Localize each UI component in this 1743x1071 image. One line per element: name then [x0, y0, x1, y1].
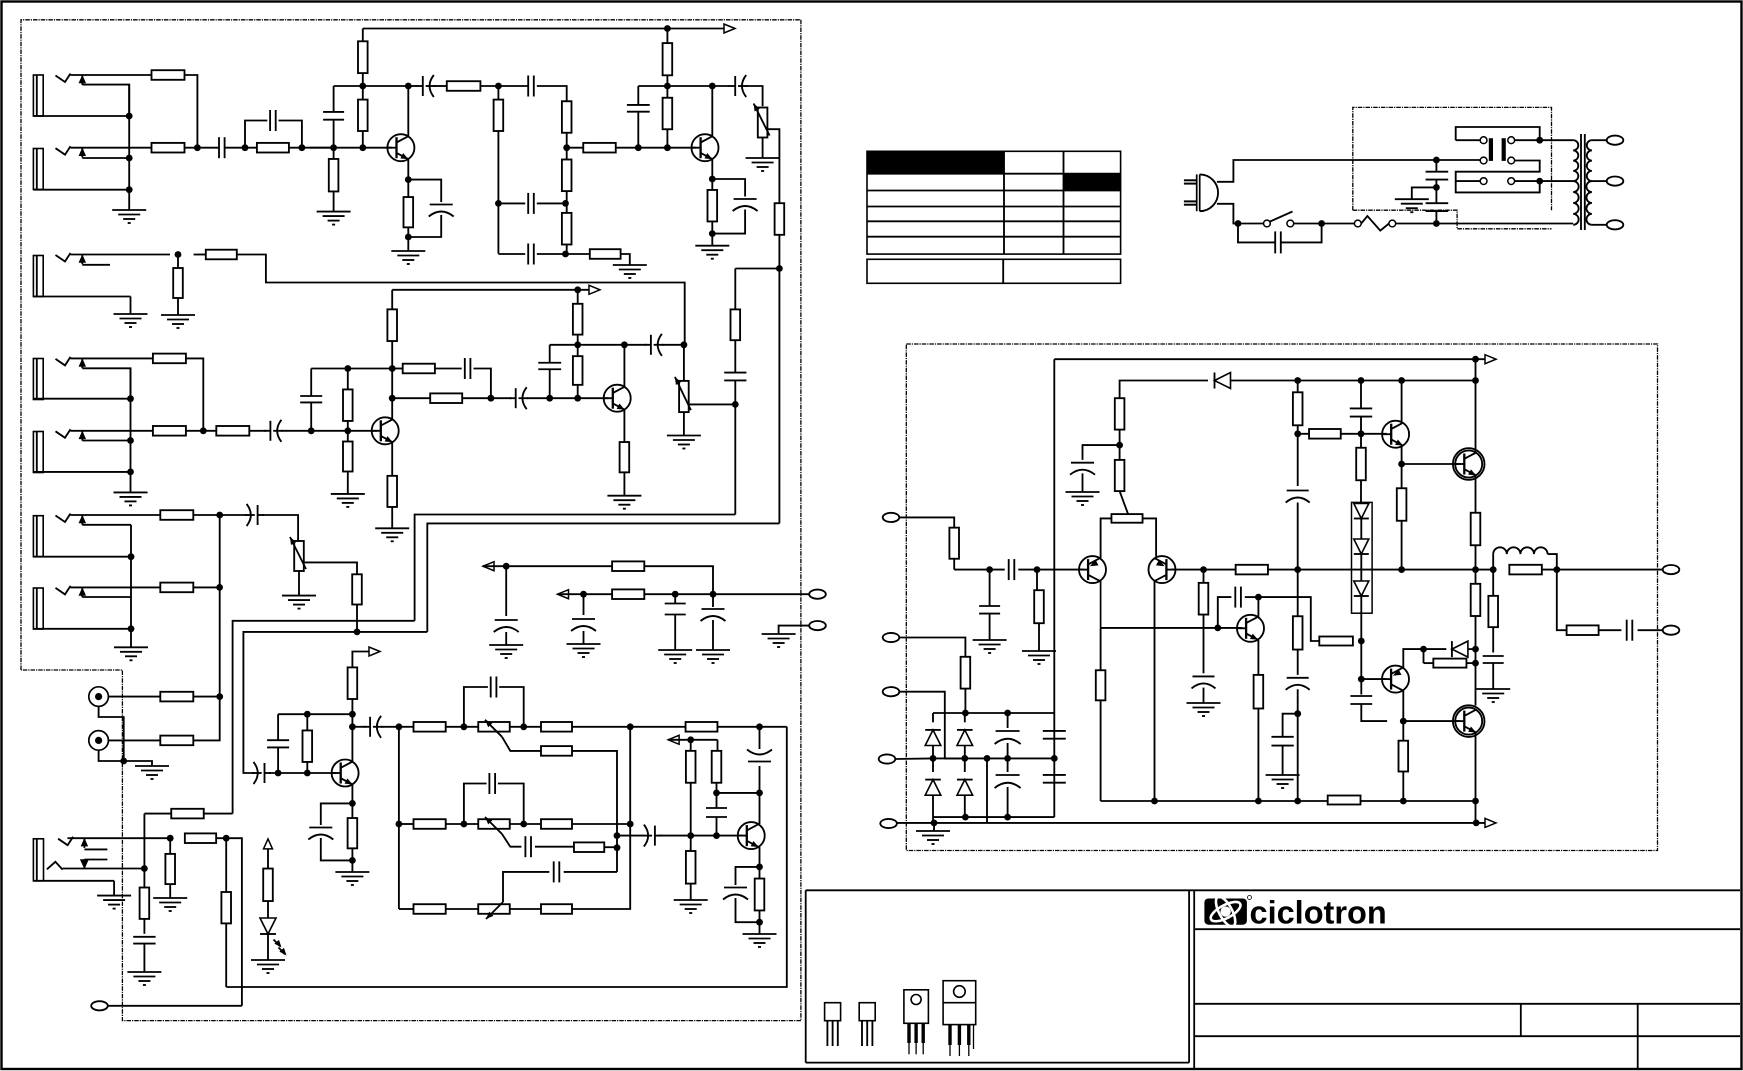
title block left edge [1193, 890, 1195, 1068]
ground jacks A [112, 210, 146, 223]
wire C1 to R3 [225, 144, 257, 151]
transistor Q9 [1149, 556, 1177, 583]
ring node [141, 814, 148, 888]
Q10 emitter wire [1398, 446, 1405, 489]
capacitor C8 bypass [712, 179, 757, 234]
bridge diode D4 [925, 713, 941, 758]
Q8 emitter wire [1100, 557, 1102, 559]
bias diode chain box [1352, 502, 1373, 613]
terminal speaker minus [1663, 626, 1680, 635]
transformer T1 secondary winding [1586, 140, 1591, 225]
bridge diode D5 [957, 713, 973, 758]
wire fb A lower2 [537, 251, 569, 258]
Q2 base line [567, 147, 584, 149]
jack J1 tip contact [56, 74, 71, 83]
capacitor across switch [1238, 224, 1322, 254]
node row A top [334, 83, 412, 90]
resistor R20 [153, 426, 186, 436]
resistor R8 [447, 81, 481, 91]
resistor R10 [663, 29, 673, 87]
resistor R6 [329, 148, 339, 212]
transistor Q10 [1382, 421, 1410, 448]
power switch S1 [1235, 212, 1325, 227]
transistor Q12 [1237, 615, 1265, 642]
selector contact group upper [1456, 127, 1540, 144]
resistor R61a [612, 589, 644, 599]
wire to speaker [1509, 566, 1662, 573]
wire R61p out [1268, 569, 1288, 571]
EQ row1 to C30 [718, 723, 787, 730]
transistor Q13 [1382, 666, 1410, 693]
capacitor C23 bypass [308, 803, 352, 860]
resistor R38q [348, 667, 358, 699]
amp rail A arrow [1485, 355, 1496, 364]
wire plug neutral [1217, 204, 1238, 224]
potentiometer P2 volume B [675, 377, 691, 412]
EQ wiper2 resistor R53 [574, 842, 604, 852]
wire R3 out [289, 144, 334, 151]
zobel network [1557, 570, 1622, 635]
Q13 base wire [1361, 678, 1386, 680]
terminal AC in C [879, 754, 896, 763]
wire R19 to node [186, 358, 203, 430]
wire C5 to R8 [434, 85, 447, 87]
wire return bus B [233, 621, 415, 814]
filter cap C47 [1043, 731, 1066, 739]
RCA ground stubs [99, 706, 152, 766]
resistor R29 [392, 364, 435, 374]
amp input wire2 [954, 566, 1005, 573]
resistor R68 [1471, 513, 1481, 570]
Q7 emitter node2 [756, 919, 763, 926]
resistor R15 [562, 213, 572, 254]
ground Q7 [743, 934, 777, 947]
ground Q1 [391, 251, 425, 264]
resistor R19v [173, 255, 183, 316]
P2 wiper wire [689, 403, 736, 405]
row A wire [483, 563, 612, 570]
V+ rail A arrow [724, 24, 735, 33]
ground C43 [1476, 689, 1510, 702]
EQ row2 resistor R52 [541, 819, 572, 829]
Q4 emitter wire [391, 442, 393, 476]
EQ wiper2 wire [502, 834, 521, 847]
wire R2 to node [185, 147, 198, 149]
terminal speaker plus [1663, 565, 1680, 574]
transformer T1 core [1581, 134, 1585, 230]
EQ wiper3 join [564, 871, 617, 873]
title block divider A [1520, 1004, 1522, 1036]
title block row line 1 [1194, 928, 1740, 930]
resistor R28 [343, 431, 353, 494]
wire C18 out [662, 341, 687, 348]
jack J2 body [33, 149, 129, 190]
wire send bus A [427, 523, 779, 632]
terminal AC in B [883, 687, 900, 696]
trim pot P7 [1111, 514, 1142, 523]
resistor R12 [583, 143, 616, 153]
vertical link rail [1475, 801, 1477, 823]
capacitor C20 [252, 762, 271, 784]
V+ rail A [363, 25, 724, 32]
resistor R33 [731, 269, 741, 373]
ground Q6 [335, 872, 369, 885]
resistor R2 [152, 143, 185, 153]
resistor R5 [358, 86, 368, 148]
bias chain lower [1358, 613, 1365, 694]
wire RCA1 [108, 696, 160, 698]
ground shunt B [567, 644, 601, 657]
wire selector to primary top [1515, 137, 1574, 144]
svg-text:ciclotron: ciclotron [1250, 895, 1387, 931]
capacitor C32 [642, 825, 661, 847]
wire R16 to ground [621, 254, 630, 265]
ground R6 [317, 212, 351, 225]
Q6 collector wire [349, 714, 356, 761]
wire R36c out [193, 693, 223, 700]
Q6 emitter wire [349, 785, 356, 807]
terminal amp gnd ref [880, 819, 897, 828]
EQ row1 node1 [446, 723, 479, 730]
wire J8 tip [68, 835, 174, 842]
V+ arrow Q6 [351, 667, 353, 714]
resistor R59 [755, 879, 765, 934]
jack J1 body [33, 75, 129, 116]
Q1 emitter node2 [405, 234, 412, 241]
jack J5 tip contact [56, 429, 71, 438]
resistor R32 [620, 442, 630, 496]
resistor R4 [358, 29, 368, 87]
capacitor C52 [1286, 678, 1310, 801]
row B wire2 [644, 591, 809, 598]
Q14 emitter wire [1475, 733, 1477, 801]
terminal secondary C [1607, 220, 1624, 229]
capacitor C36 [1218, 587, 1259, 628]
capacitor C31 [706, 793, 727, 836]
resistor R26 [430, 393, 462, 403]
transistor Q14 [1453, 705, 1485, 737]
P2 ground [667, 412, 701, 448]
selector contact group lower [1456, 157, 1540, 192]
title block row line 2 [1194, 1003, 1740, 1005]
ground shunt C [658, 650, 692, 663]
terminal preamp gnd [779, 621, 826, 634]
resistor R22 [206, 250, 237, 260]
wire J7 tip to R [71, 586, 161, 588]
resistor R79 [961, 657, 971, 713]
PSU bottom bus [933, 814, 1054, 821]
Q2 collector wire [711, 86, 713, 136]
V+ rail B arrow [589, 285, 600, 294]
EQ row2 resistor R40 [399, 819, 446, 829]
ground shunt D [696, 650, 730, 663]
capacitor C7 [627, 86, 650, 148]
terminal preamp out [809, 590, 826, 599]
ground terminal [762, 634, 796, 647]
resistor R60a [612, 561, 644, 571]
inductor L1 [1493, 547, 1557, 569]
node R57 bottom [713, 790, 759, 797]
wire J4 tip to R19 [71, 357, 153, 359]
wire C32 to Q7 [659, 832, 743, 839]
capacitor C14 [300, 369, 322, 431]
LED D8 [260, 918, 287, 960]
EQ row1 resistor R51 [686, 722, 718, 732]
wire C15 out [474, 369, 491, 399]
EQ row1 out [572, 723, 686, 730]
resistor R69 [1509, 565, 1542, 575]
amp rail B wire [1231, 377, 1479, 384]
capacitor C49 [1627, 620, 1633, 641]
ground Q4 [375, 528, 409, 541]
capacitor C38 [1286, 434, 1310, 570]
capacitor C33q bypass [723, 867, 760, 922]
V+ arrow EQ [668, 735, 717, 744]
filter cap C46 [995, 758, 1021, 817]
wire plug live [1217, 160, 1480, 182]
wire fb A upper [498, 202, 525, 204]
EQ row3 resistor R55 [510, 904, 572, 914]
ground bus jacks C [128, 525, 135, 648]
capacitor C18 coupling [624, 334, 663, 356]
Q13 emitter wire [1403, 646, 1427, 668]
resistor R30 [573, 345, 583, 398]
Q12 emitter wire [1257, 640, 1259, 675]
node B1 [563, 144, 570, 151]
Q6 bias row [278, 711, 356, 718]
amp bottom rail2 [1101, 798, 1479, 805]
V+ stub Q6 [352, 647, 380, 667]
capacitor C11 [245, 504, 264, 526]
node fb A [495, 200, 502, 207]
ground R82b [1022, 651, 1056, 664]
P6 wiper wire [304, 562, 357, 574]
ground R28 [331, 494, 365, 507]
EQ input bus [396, 723, 403, 909]
transistor Q11 [1453, 448, 1485, 480]
EQ row1 cap C24 [464, 677, 524, 727]
Q7 base line [617, 835, 643, 837]
wire send bus B [415, 515, 736, 621]
capacitor C6 coupling [528, 76, 534, 97]
filter cap C48 [1043, 775, 1066, 783]
resistor R62 [1115, 460, 1125, 491]
wire R29 to C15 [435, 368, 462, 370]
resistor R60p [1199, 570, 1209, 674]
EQ wiper2 cap C28 [525, 836, 531, 857]
table highlighted cell [1064, 174, 1121, 191]
wire C20 to Q6 [269, 770, 337, 777]
stage B2 line [389, 395, 494, 402]
resistor R16 [590, 249, 621, 259]
amp input wire3 [1018, 566, 1083, 573]
ground Q2 [695, 246, 729, 259]
capacitor C6b [528, 244, 534, 265]
wire R20 to node [186, 427, 217, 434]
resistor R74 [1471, 570, 1481, 706]
wire Q12 to R72 [1258, 597, 1319, 641]
ground jacks C [114, 647, 148, 660]
table grid [867, 151, 1121, 254]
resistor R82b [1034, 570, 1044, 651]
bridge diode D7 [957, 758, 973, 817]
wire RCA2 [108, 739, 160, 741]
resistor R13 [562, 101, 572, 147]
wire fb A lower [498, 253, 525, 255]
title block top line [806, 889, 1740, 891]
Q7 collector wire [756, 790, 763, 825]
jack J5 body [33, 432, 130, 473]
Q4 collector wire [391, 369, 393, 420]
power amp block dashed boundary [906, 344, 1657, 851]
filter midpoint ground [1395, 187, 1437, 212]
ground C53 [1266, 775, 1300, 788]
wire mix line [243, 629, 427, 774]
resistor R37q [348, 803, 358, 872]
title block divider B [1637, 1004, 1639, 1069]
capacitor C16 coupling [491, 387, 528, 409]
resistor R21 [216, 426, 249, 436]
wire fb bottom [567, 253, 590, 255]
resistor R9 [494, 86, 504, 254]
resistor R64 [1293, 381, 1303, 434]
EQ row3 node1 [446, 908, 479, 910]
jack J8 ring switch [80, 859, 108, 869]
resistor R25 [387, 290, 397, 369]
resistor R45 [165, 838, 175, 898]
jack J7 tip contact [56, 586, 71, 595]
wire R21 to C10 [249, 430, 266, 432]
transistor Q8 [1079, 556, 1107, 583]
jack J7 body [33, 588, 131, 629]
node row B3 top [550, 341, 628, 348]
wire C16 out [527, 395, 609, 402]
resistor R76 [1328, 796, 1361, 805]
node P2 wiper bus [732, 401, 739, 515]
jack J4 body [33, 359, 130, 400]
wire secondary tap B [1592, 180, 1607, 182]
package TO-220 [943, 981, 976, 1056]
jack J8 tip contact [58, 837, 73, 846]
resistor R72 [1319, 637, 1353, 646]
EQ row2 node2 [510, 821, 541, 828]
resistor R56 [686, 740, 696, 836]
capacitor C3 [323, 86, 344, 148]
ground bus jacks B [127, 368, 134, 492]
EQ row1 resistor R50 [541, 722, 572, 732]
jack J6 switch contact [79, 515, 131, 525]
package TO-92 A [825, 1003, 841, 1046]
capacitor C4 bypass [408, 180, 453, 237]
resistor R18 [775, 203, 785, 523]
capacitor C22 coupling [352, 716, 382, 738]
Q14 base wire [1403, 720, 1460, 722]
ground jacks B [114, 492, 148, 505]
resistor R73 [1424, 649, 1476, 668]
wire J1 tip to R1 [71, 74, 152, 76]
resistor R75 [1488, 570, 1498, 653]
J3 ground bus [114, 297, 148, 328]
EQ wiper2 wire2 [535, 846, 574, 848]
wire selector tap [1515, 178, 1574, 185]
capacitor C17 [538, 345, 561, 398]
wire R34c out [193, 514, 219, 516]
capacitor C2 feedback [245, 110, 302, 148]
AC A wire [899, 638, 965, 657]
ground shunt amp [973, 640, 1007, 653]
bias diode D2a [1354, 502, 1369, 539]
feedback rail [888, 822, 890, 824]
ground R19v [161, 315, 195, 328]
ground bus jacks A [126, 85, 133, 210]
amp module left rail [1053, 359, 1055, 817]
voltage selector dashed box [1353, 107, 1552, 228]
AC plug P1 [1184, 174, 1218, 211]
resistor R35 [352, 574, 362, 632]
resistor R67 [1397, 488, 1407, 569]
wire R1 to node [185, 75, 198, 148]
filter cap C45 [995, 713, 1021, 758]
resistor R7 [404, 180, 414, 251]
capacitor C41 [1350, 696, 1387, 721]
node row B2 top [311, 365, 395, 372]
Q11 collector wire [1475, 381, 1477, 453]
node P1 bus [776, 265, 783, 272]
row B wire [558, 591, 613, 598]
resistor R17 [708, 179, 718, 246]
jack J3 body [33, 256, 130, 297]
AC B wire [899, 692, 965, 759]
EQ row3 resistor R54 [399, 904, 446, 914]
capacitor C54 [1070, 445, 1120, 492]
Q1 emitter wire [405, 159, 412, 183]
diode D1 [1215, 373, 1231, 389]
EQ output drop [226, 727, 787, 987]
EQ wiper1 resistor R49 [541, 746, 572, 756]
EQ row3 out [572, 727, 630, 909]
wire J6 tip to R [71, 514, 161, 516]
amp input wire [899, 517, 954, 527]
resistor R37c [160, 736, 193, 746]
potentiometer P6 master [290, 537, 306, 571]
mid bus gnd link [986, 758, 988, 823]
EQ row2 out [572, 821, 634, 828]
capacitor C10 [264, 420, 283, 442]
transistor Q7 [737, 822, 765, 849]
jack J4 switch contact [79, 358, 131, 399]
resistor R84 [1293, 570, 1303, 675]
resistor R65 [1309, 429, 1341, 439]
V+ rail B [392, 286, 589, 293]
preamp block dashed boundary [21, 20, 801, 1021]
jack J5 switch contact [79, 431, 131, 441]
Q9 collector wire [1154, 581, 1156, 801]
wire C22 out [381, 726, 399, 728]
jack J1 switch contact [79, 75, 130, 116]
title block row line 3 [1194, 1035, 1740, 1037]
ground R45 [153, 898, 187, 911]
wire R8 out [480, 83, 528, 90]
resistor R61p [1236, 565, 1268, 575]
wire to P2 [683, 345, 685, 381]
wire R65 out [1341, 430, 1387, 437]
wire R43 out [216, 835, 242, 1006]
shunt cap C [665, 594, 686, 650]
feedback rail wire [897, 820, 1486, 827]
wire fb A upper2 [537, 200, 569, 207]
Q2 emitter node2 [709, 230, 716, 237]
ground C27 [127, 972, 161, 985]
